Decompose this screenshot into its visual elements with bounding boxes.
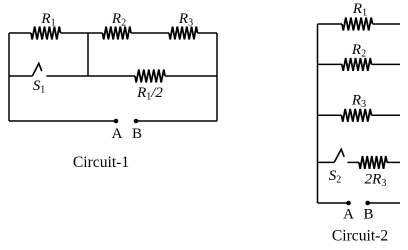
- wire: branch-1 rail right of R1: [373, 23, 401, 25]
- wire: Circuit-2 branch-3 rail left of R3: [318, 114, 342, 116]
- svg-text:S2: S2: [329, 168, 342, 186]
- wire: Circuit-2 left vertical: [317, 24, 319, 203]
- wire: middle rail left segment to switch: [9, 75, 32, 77]
- svg-text:2R3: 2R3: [365, 172, 387, 190]
- wire: Circuit-2 branch-4 rail left segment to switch S2: [318, 161, 335, 163]
- svg-text:R2: R2: [351, 42, 366, 60]
- node B terminal dot (Circuit-1): [134, 119, 139, 124]
- wire: Circuit-2 bottom rail right segment from terminal B: [368, 202, 400, 204]
- resistor R3 (Circuit-2): [342, 109, 372, 122]
- wire: vertical junction between R1 and R2 down to middle rail: [87, 33, 89, 76]
- resistor R2 (Circuit-2): [342, 58, 372, 71]
- svg-text:R2: R2: [111, 11, 126, 29]
- wire: branch-4 rail right of 2R3: [387, 161, 400, 163]
- switch S2 (open blade): [334, 149, 344, 162]
- wire: top rail between R1 and R2: [61, 32, 103, 34]
- svg-text:R1: R1: [40, 11, 55, 29]
- node A terminal dot (Circuit-2): [346, 201, 351, 206]
- wire: top rail between R2 and R3: [131, 32, 169, 34]
- wire: top rail right of R3: [198, 32, 218, 34]
- wire: bottom rail right segment from terminal B: [136, 120, 217, 122]
- wire: Circuit-2 bottom rail left segment to terminal A: [318, 202, 349, 204]
- svg-text:A: A: [112, 126, 123, 142]
- svg-text:R3: R3: [178, 11, 193, 29]
- resistor R1/2 (Circuit-1): [135, 70, 165, 83]
- svg-text:S1: S1: [33, 78, 46, 96]
- svg-text:R1: R1: [352, 1, 367, 19]
- wire: Circuit-1 right vertical: [216, 33, 218, 121]
- wire: Circuit-1 left vertical: [8, 33, 10, 121]
- svg-text:B: B: [363, 207, 373, 223]
- resistor R3 (Circuit-1): [169, 27, 198, 40]
- resistor R1 (Circuit-2): [342, 18, 373, 31]
- wire: bottom rail left segment to terminal A: [9, 120, 116, 122]
- wire: branch-4 between switch and resistor 2R3: [348, 161, 360, 163]
- svg-text:Circuit-1: Circuit-1: [73, 154, 129, 171]
- wire: branch-3 rail right of R3: [372, 114, 401, 116]
- resistor R2 (Circuit-1): [103, 27, 132, 40]
- svg-text:R1/2: R1/2: [136, 85, 163, 103]
- svg-text:Circuit-2: Circuit-2: [332, 228, 388, 245]
- switch S1 (open blade): [32, 63, 41, 76]
- node B terminal dot (Circuit-2): [365, 201, 370, 206]
- svg-text:R3: R3: [351, 93, 366, 111]
- node A terminal dot (Circuit-1): [114, 119, 119, 124]
- wire: middle rail right of R1/2: [165, 75, 217, 77]
- svg-text:A: A: [343, 207, 354, 223]
- wire: branch-2 rail right of R2: [372, 63, 401, 65]
- wire: middle rail between switch and R1/2: [46, 75, 135, 77]
- wire: Circuit-2 branch-1 rail left of R1: [318, 23, 343, 25]
- resistor 2R3 (Circuit-2): [359, 156, 387, 169]
- wire: Circuit-1 top rail left segment: [9, 32, 31, 34]
- svg-text:B: B: [132, 126, 142, 142]
- wire: Circuit-2 branch-2 rail left of R2: [318, 63, 343, 65]
- resistor R1 (Circuit-1): [31, 27, 61, 40]
